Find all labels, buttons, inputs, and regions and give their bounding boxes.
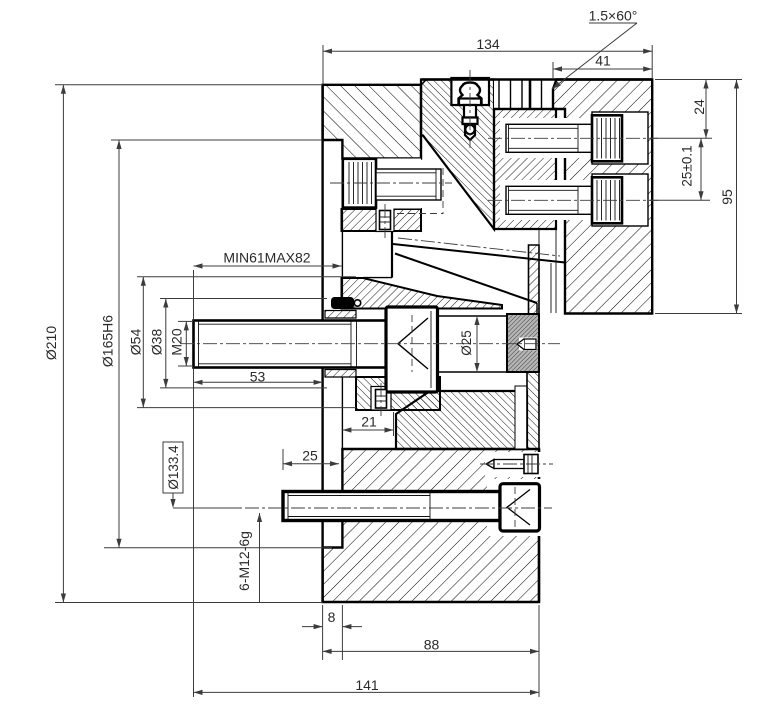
flange bolt 1: [488, 115, 658, 161]
svg-text:Ø165H6: Ø165H6: [100, 315, 116, 367]
svg-text:1.5×60°: 1.5×60°: [589, 8, 638, 24]
lower wedge F: [396, 386, 527, 449]
upper-left bolt (head+shank): [330, 159, 452, 215]
tiny screw lower: [376, 383, 387, 416]
svg-text:6-M12-6g: 6-M12-6g: [236, 531, 252, 591]
svg-text:M20: M20: [169, 328, 185, 355]
svg-text:Ø54: Ø54: [128, 329, 144, 356]
narrow column right (upper): [527, 245, 539, 449]
flange bolt holes white: [500, 112, 648, 226]
gland G upper: [325, 278, 502, 377]
svg-text:Ø38: Ø38: [149, 329, 165, 356]
shaft M20 drawbar: [194, 321, 387, 368]
svg-text:41: 41: [595, 53, 611, 69]
tiny screw upper (in E band): [380, 204, 391, 238]
small horizontal screw right: [480, 455, 553, 474]
svg-text:88: 88: [424, 637, 440, 653]
svg-text:21: 21: [361, 414, 377, 430]
phi133.4 frame: [163, 442, 183, 493]
svg-text:141: 141: [355, 677, 379, 693]
flange part C (right): [553, 80, 652, 314]
striped band (slotted ring, top): [421, 80, 652, 110]
svg-text:MIN61MAX82: MIN61MAX82: [223, 250, 310, 266]
svg-text:Ø133.4: Ø133.4: [166, 445, 181, 490]
central bolt head U: [386, 307, 438, 392]
svg-text:25±0.1: 25±0.1: [680, 145, 695, 186]
retainer band E: [342, 208, 422, 232]
phi25 pin edges: [438, 316, 508, 372]
svg-text:95: 95: [719, 189, 735, 205]
gray bushing block: [507, 314, 539, 372]
bolt ring part D: [494, 109, 556, 229]
wedge part B (upper, fine hatch): [421, 78, 494, 229]
seal O-ring (black): [331, 297, 361, 309]
svg-text:25: 25: [302, 448, 318, 464]
wedge chamber diagonals: [363, 231, 565, 314]
lower M12 mounting bolt: [176, 484, 552, 531]
flange bolt 2: [488, 177, 658, 223]
svg-text:53: 53: [250, 369, 266, 385]
svg-text:24: 24: [691, 99, 707, 115]
lower gland band F': [356, 377, 440, 410]
part edge lines near flange gap: [539, 229, 556, 313]
svg-text:134: 134: [476, 36, 500, 52]
main axis centerline: [180, 343, 560, 345]
svg-text:8: 8: [328, 609, 336, 625]
svg-text:Ø210: Ø210: [43, 326, 59, 360]
body A lower block H: [323, 449, 541, 602]
groove face lines (left): [323, 85, 343, 602]
grease fitting (zerk): [459, 70, 482, 148]
body A top band (main block upper rim): [323, 85, 421, 159]
arrowheads: [61, 49, 739, 695]
svg-text:Ø25: Ø25: [459, 330, 474, 356]
